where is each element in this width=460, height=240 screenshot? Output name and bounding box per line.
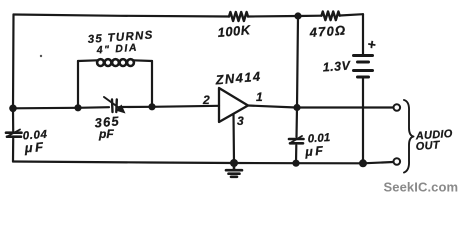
inductor L1 top wire left	[78, 59, 98, 62]
node A dot (left vertical / middle wire)	[9, 105, 17, 113]
node dot inductor left	[74, 104, 81, 111]
brace for audio out	[404, 100, 414, 173]
node dot inductor right	[148, 103, 155, 110]
battery B1 plates	[354, 56, 373, 78]
node dot battery bottom	[359, 159, 367, 167]
inductor L1 left leg	[77, 61, 79, 108]
resistor R2 470 ohm zigzag	[322, 12, 340, 21]
wire left vertical lower (cap C1 to bottom corner)	[12, 139, 14, 162]
wire to top output terminal	[297, 106, 393, 108]
terminal bottom (open circle)	[394, 158, 401, 165]
inductor L1 coil turns	[97, 59, 134, 66]
variable capacitor C2 arrow	[104, 97, 122, 110]
capacitor C3 0.01uF plates	[289, 136, 304, 143]
wire top horizontal left segment	[14, 15, 230, 17]
resistor R1 100K zigzag	[229, 12, 248, 21]
node dot top (R1/R2 junction)	[294, 12, 301, 19]
capacitor C1 0.04uF plates	[6, 130, 22, 137]
inductor L1 top wire right	[134, 59, 153, 62]
wire pin 3 down to ground	[232, 114, 235, 163]
svg-text:1: 1	[256, 90, 263, 104]
wire battery bottom lead	[362, 79, 364, 164]
wire top horizontal right segment to battery	[340, 14, 363, 15]
svg-text:2: 2	[202, 93, 210, 107]
svg-text:4" DIA: 4" DIA	[95, 42, 138, 57]
variable capacitor C2 365pF plates	[112, 100, 117, 113]
svg-text:100K: 100K	[217, 22, 252, 40]
svg-text:OUT: OUT	[415, 139, 441, 153]
wire output node down to capacitor C3	[295, 108, 298, 138]
node dot ground junction	[230, 159, 238, 167]
terminal top (open circle)	[394, 104, 401, 111]
wire capacitor C3 to bottom wire	[295, 145, 297, 163]
ground symbol	[226, 163, 242, 177]
svg-text:μF: μF	[304, 144, 326, 159]
svg-text:SeekIC.com: SeekIC.com	[384, 180, 459, 195]
IC U1 ZN414 triangle	[219, 88, 248, 122]
node dot output	[293, 104, 300, 111]
wire middle horizontal (C2 to pin 2)	[120, 106, 220, 107]
wire battery top lead	[362, 14, 364, 54]
svg-text:pF: pF	[98, 127, 114, 141]
wire output pin 1	[248, 106, 296, 108]
svg-text:470Ω: 470Ω	[308, 22, 347, 40]
inductor L1 right leg	[151, 61, 153, 107]
wire bottom horizontal	[13, 162, 393, 164]
wire top horizontal middle segment	[248, 15, 322, 18]
wire left vertical upper (top corner to cap C1)	[12, 15, 15, 132]
svg-text:μF: μF	[23, 139, 46, 155]
svg-text:ZN414: ZN414	[214, 69, 262, 88]
svg-text:+: +	[366, 36, 376, 53]
svg-text:3: 3	[237, 114, 244, 128]
stray ink dot	[40, 55, 42, 57]
node dot C3 bottom	[292, 160, 299, 167]
wire vertical from top node to output node	[297, 16, 298, 108]
wire middle horizontal (node A to pin 2)	[13, 107, 109, 108]
svg-text:1.3V: 1.3V	[322, 59, 352, 75]
